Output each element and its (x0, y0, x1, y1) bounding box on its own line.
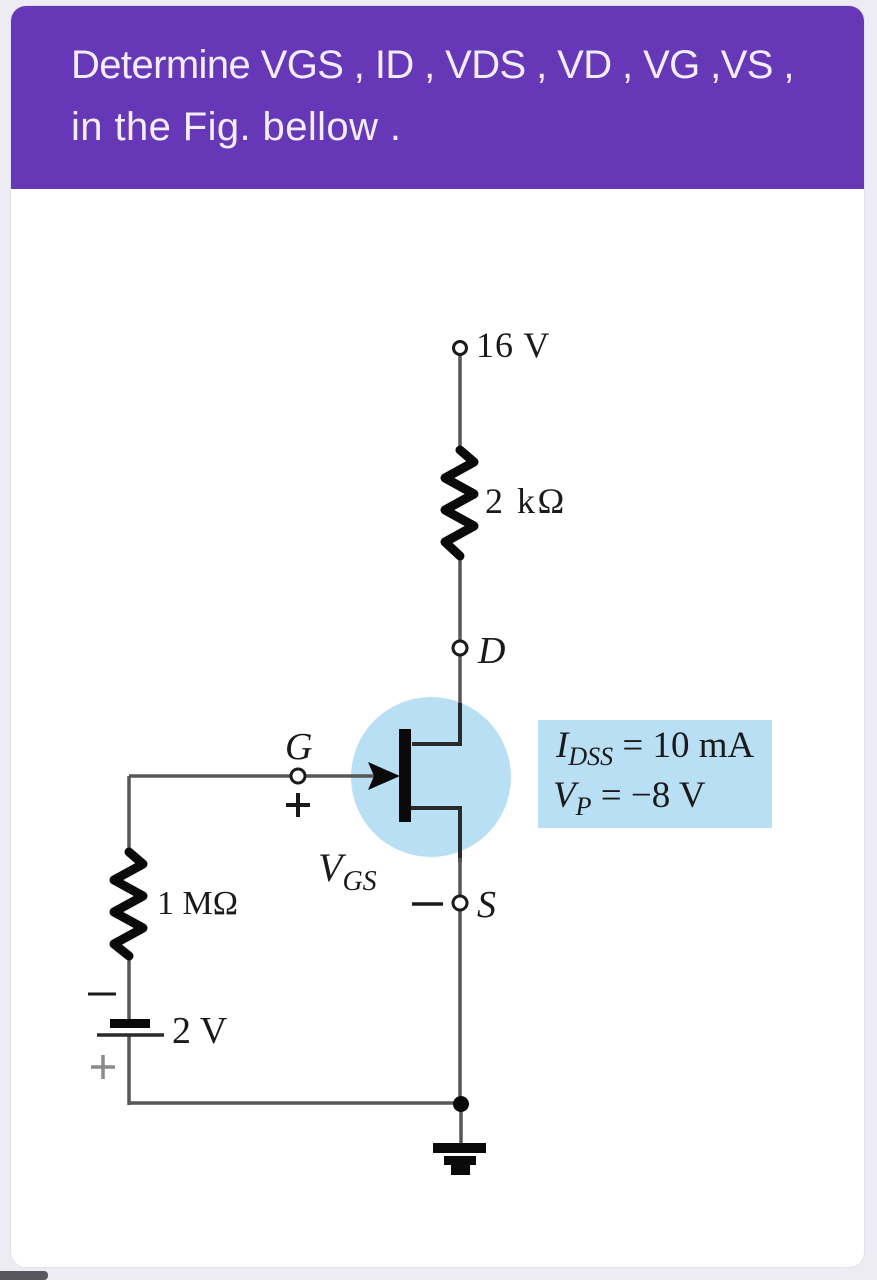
wire: junction to ground (459, 1103, 463, 1146)
node D circle (453, 641, 467, 655)
ground symbol (433, 1143, 486, 1153)
wire: bottom horizontal to junction (129, 1101, 461, 1105)
svg-text:2 V: 2 V (172, 1010, 228, 1052)
wire: node D down into JFET region (458, 655, 462, 705)
purple header with question text (11, 6, 864, 189)
minus sign above battery (88, 993, 116, 996)
wire: source down through S to junction (458, 858, 462, 1104)
svg-text:S: S (477, 884, 496, 926)
node G circle (291, 769, 305, 783)
battery negative plate (thick) (110, 1019, 150, 1028)
wire: left vertical down to RG (127, 776, 131, 852)
wire: RG to battery (127, 956, 131, 1020)
plus sign below battery (91, 1055, 115, 1079)
junction dot (453, 1096, 469, 1112)
resistor RG 1M zigzag (114, 852, 143, 956)
wire: RD to node D (458, 558, 462, 641)
drain lead of JFET (412, 703, 460, 744)
minus sign at source (412, 902, 443, 906)
node S circle (453, 896, 467, 910)
dark gray rect bottom-left (0, 1271, 48, 1280)
battery positive plate (thin) (97, 1033, 164, 1037)
svg-text:D: D (477, 630, 505, 672)
parameter box (538, 720, 772, 828)
JFET gate arrowhead (368, 762, 400, 790)
svg-text:16 V: 16 V (476, 325, 550, 365)
wire: gate wire from left to JFET (129, 774, 392, 778)
svg-text:2 kΩ: 2 kΩ (485, 481, 567, 521)
terminal 16V circle (454, 342, 467, 355)
svg-text:1 MΩ: 1 MΩ (157, 885, 238, 922)
JFET highlight circle (351, 697, 511, 857)
svg-text:G: G (285, 726, 312, 768)
wire: 16V terminal to RD (458, 355, 462, 448)
resistor RD 2k zigzag (445, 450, 474, 556)
plus sign at gate (286, 793, 310, 817)
JFET channel bar (399, 729, 411, 822)
svg-text:VGS: VGS (318, 845, 377, 897)
wire: battery to bottom wire (127, 1036, 131, 1105)
source lead of JFET (410, 808, 460, 862)
